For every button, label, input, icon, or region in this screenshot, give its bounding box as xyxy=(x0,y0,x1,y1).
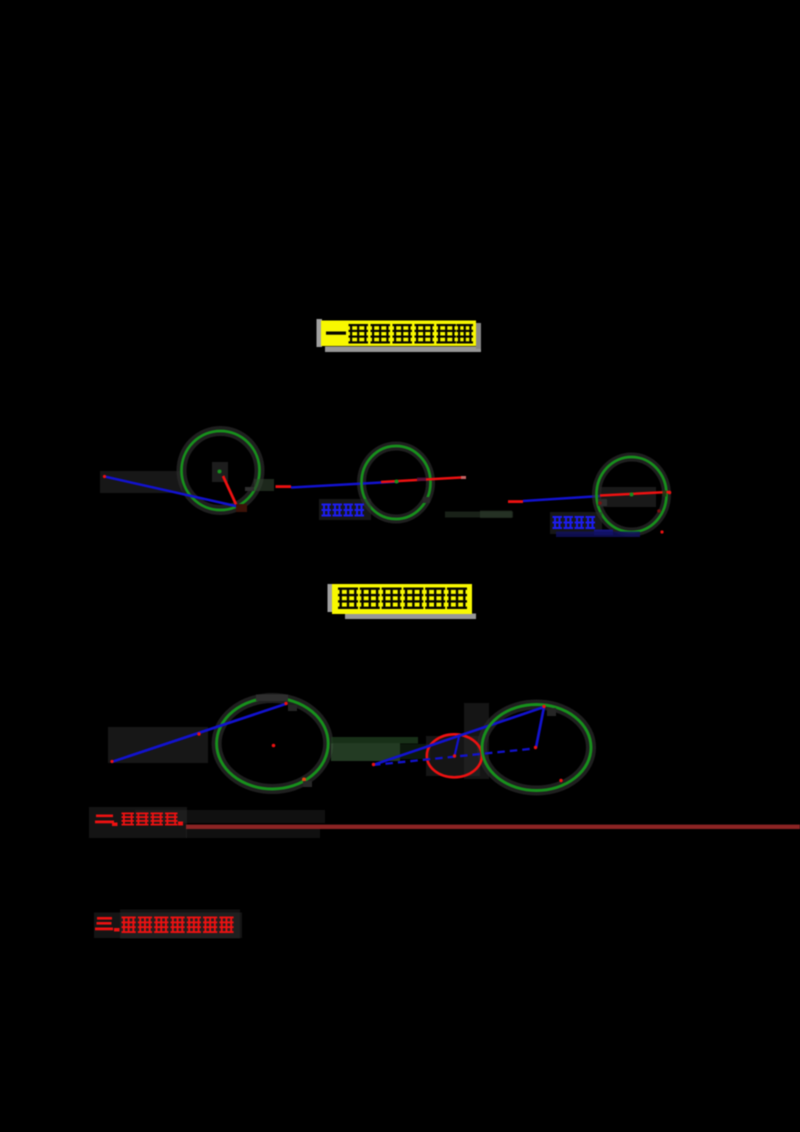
endpoint dot B3 xyxy=(668,491,672,495)
halo circle O2 xyxy=(362,446,431,519)
right big green circle xyxy=(482,705,591,791)
center dot O3 xyxy=(630,493,634,497)
circle O3 xyxy=(597,457,667,532)
red text 三、 xyxy=(97,917,112,920)
vertical blue line apex to center xyxy=(536,707,544,748)
gray patches red row2 xyxy=(94,913,242,939)
red text word row2 xyxy=(122,917,136,919)
title1 yellow highlight xyxy=(321,321,476,347)
red diameter through O3 xyxy=(600,492,669,496)
title2 yellow highlight xyxy=(332,584,472,614)
title1 text 一箭穿心得最值 (fake strokes) xyxy=(326,332,346,335)
circle O1 xyxy=(182,431,260,510)
red dot circle3 bottom xyxy=(660,530,663,533)
red dots right group xyxy=(372,763,375,766)
sage artifact band middle row1 xyxy=(445,512,513,518)
halo line P1 xyxy=(100,471,182,493)
halo circle O3 xyxy=(597,457,667,532)
halo line d2 xyxy=(108,727,208,763)
long blue line xyxy=(373,707,544,765)
left big circle xyxy=(217,698,329,789)
red radius circle1 xyxy=(223,476,237,507)
title2 shadow xyxy=(328,584,477,619)
red dash between c1 c2 xyxy=(276,485,292,488)
black arrow marks top xyxy=(288,705,297,711)
black arrow mark apex xyxy=(547,708,556,716)
point P1 red dot xyxy=(103,475,106,478)
left endpoint dot xyxy=(110,760,113,763)
blue line P1 to circle1 xyxy=(105,477,239,507)
blue label 距离最大 xyxy=(319,499,371,520)
dark marks near circle1 bottom xyxy=(245,487,254,491)
center dot O1 xyxy=(218,470,222,474)
green arrow band xyxy=(331,743,400,761)
red text word row1 xyxy=(122,813,135,815)
sage artifact left of c3 xyxy=(480,511,512,519)
dark overlap mark on red line xyxy=(417,478,426,482)
short blue line inside red circle xyxy=(455,735,460,757)
circle O2 xyxy=(362,446,431,519)
halo left circle d2 xyxy=(217,698,329,789)
dark mark circle2 lower right xyxy=(423,497,430,503)
red text 二、 xyxy=(96,815,113,818)
blue line P2 to circle2 xyxy=(291,482,399,488)
tangent point red dot xyxy=(284,702,287,705)
title2 text 瓜豆原理之圆 (fake strokes) xyxy=(338,588,358,590)
left circle center dot xyxy=(272,744,276,748)
gray patches red row1 xyxy=(89,807,187,838)
sage artifact right of circle1 xyxy=(254,479,274,491)
small red circle xyxy=(427,734,482,777)
dark marks circle3 left xyxy=(598,499,607,506)
orange dot bottom right of left circle xyxy=(302,778,306,782)
title1 shadow xyxy=(317,319,482,352)
halo circle O1 xyxy=(182,431,260,510)
blue line P3 to circle3 xyxy=(523,496,601,501)
blue label 距离最小 xyxy=(550,512,602,534)
blue tangent line xyxy=(112,704,288,763)
halo right group xyxy=(482,705,591,791)
red extension through O2 xyxy=(381,478,461,483)
dark red horizontal rule xyxy=(186,825,800,829)
center dot O2 xyxy=(395,480,399,484)
dashed blue horizontal xyxy=(373,749,534,766)
red dash before c3 xyxy=(508,500,523,503)
mid dot on line xyxy=(197,732,200,735)
navy underline xyxy=(594,530,613,536)
